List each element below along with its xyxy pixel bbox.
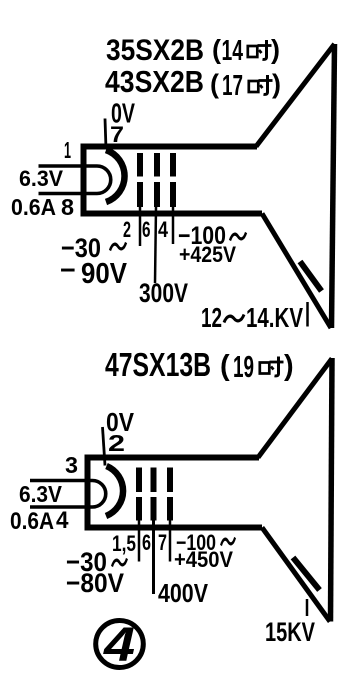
svg-text:14.KV: 14.KV <box>246 302 303 333</box>
svg-text:47SX13B: 47SX13B <box>105 346 211 383</box>
label: grid3 tilde <box>230 233 246 241</box>
tube V2 neck bottom wall <box>85 525 262 531</box>
svg-text:4: 4 <box>103 619 135 672</box>
label: grid1 tilde V2 <box>112 559 127 567</box>
svg-text:35SX2B: 35SX2B <box>106 34 204 67</box>
svg-text:8: 8 <box>61 194 74 220</box>
grid G2 lead <box>155 207 156 283</box>
cathode lead pin 2 <box>103 427 106 466</box>
svg-text:90V: 90V <box>81 258 128 290</box>
svg-text:): ) <box>272 69 281 99</box>
svg-text:0.6A: 0.6A <box>11 194 56 220</box>
tube V2 neck left wall <box>85 455 91 531</box>
anode lead V2 <box>306 599 309 616</box>
svg-text:): ) <box>271 35 280 65</box>
svg-text:+425V: +425V <box>179 242 236 267</box>
tube V1 funnel top <box>256 44 335 147</box>
heater filament V2 <box>30 481 106 508</box>
tube V2 funnel bottom <box>262 528 330 622</box>
heater filament V1 <box>39 166 111 194</box>
svg-text:12: 12 <box>201 302 222 333</box>
svg-text:6: 6 <box>142 530 151 555</box>
svg-text:(: ( <box>210 69 219 99</box>
figure number circle <box>96 621 144 668</box>
svg-text:2: 2 <box>123 217 131 242</box>
anode button V1 <box>300 262 322 292</box>
svg-text:−: − <box>60 255 76 285</box>
tube V2 screen face <box>331 358 333 622</box>
svg-text:400V: 400V <box>158 578 209 608</box>
label: anode tilde <box>224 315 244 323</box>
svg-text:17: 17 <box>222 70 243 102</box>
svg-text:2: 2 <box>108 430 125 456</box>
grid G1 V2 <box>136 468 142 521</box>
svg-text:+450V: +450V <box>174 547 233 572</box>
grid G3 lead V2 <box>169 520 172 562</box>
svg-text:(: ( <box>212 35 221 65</box>
svg-text:43SX2B: 43SX2B <box>105 64 204 99</box>
svg-text:4: 4 <box>56 507 69 534</box>
svg-text:300V: 300V <box>139 278 188 308</box>
svg-text:7: 7 <box>110 122 124 147</box>
svg-text:6: 6 <box>142 217 151 242</box>
grid G2 lead V2 <box>152 520 155 594</box>
tube V1 screen face <box>332 44 335 328</box>
svg-text:7: 7 <box>158 530 167 555</box>
label: grid3 tilde V2 <box>221 538 235 546</box>
svg-text:1: 1 <box>64 137 71 163</box>
tube V2 neck top wall <box>85 455 259 461</box>
grid G3 lead <box>172 207 175 244</box>
svg-text:): ) <box>284 350 294 382</box>
svg-text:15KV: 15KV <box>265 617 315 647</box>
svg-text:4: 4 <box>158 217 169 242</box>
label: grid1 tilde <box>110 243 126 251</box>
grid G1 lead <box>139 207 142 246</box>
svg-text:19: 19 <box>233 349 254 384</box>
tube V1 neck top wall <box>81 144 257 150</box>
anode lead V1 <box>306 302 309 327</box>
svg-text:0.6A: 0.6A <box>10 508 54 535</box>
label: 17-inch glyph <box>249 75 273 94</box>
tube V2 funnel top <box>258 359 332 458</box>
tube V1 neck bottom wall <box>81 211 262 217</box>
cathode V2 <box>106 466 123 516</box>
svg-text:3: 3 <box>65 452 78 478</box>
anode button V2 <box>293 558 320 591</box>
grid G2 V1 <box>154 153 160 207</box>
tube V1 funnel bottom <box>262 214 331 329</box>
cathode lead pin 7 <box>105 119 106 150</box>
tube V1 neck left wall <box>81 144 87 217</box>
svg-text:1,5: 1,5 <box>112 531 136 556</box>
label: 14-inch glyph <box>248 40 272 59</box>
svg-text:−80V: −80V <box>66 568 124 598</box>
cathode V1 <box>106 150 125 202</box>
svg-text:(: ( <box>220 350 230 382</box>
grid G3 V1 <box>170 153 176 207</box>
grid G1 lead V2 <box>138 520 141 562</box>
grid G1 V1 <box>137 153 143 207</box>
grid G3 V2 <box>167 468 173 521</box>
svg-text:14: 14 <box>222 35 244 67</box>
label: 19-inch glyph <box>260 357 284 376</box>
svg-text:6.3V: 6.3V <box>19 481 63 507</box>
grid G2 V2 <box>151 468 157 521</box>
svg-text:6.3V: 6.3V <box>19 166 63 191</box>
